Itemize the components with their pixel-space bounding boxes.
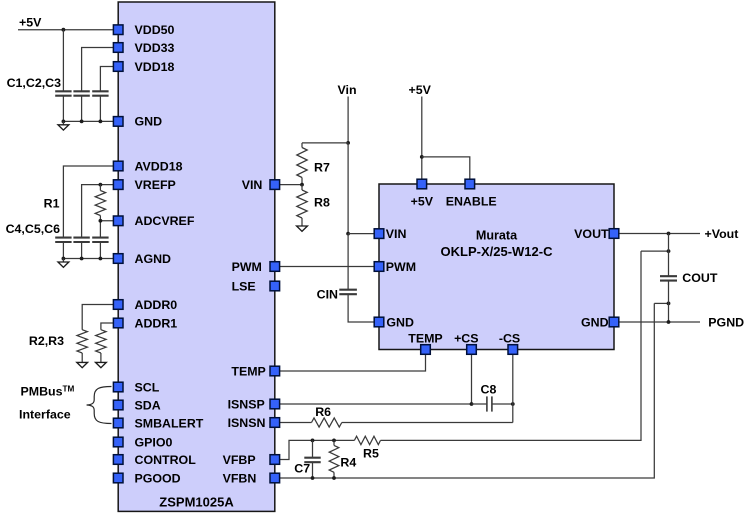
label pin VIN module [386, 227, 407, 241]
junction rail C3 [99, 120, 103, 124]
capacitor C8 [472, 396, 513, 411]
pin U1 ISNSN [270, 418, 280, 428]
pin U1 SMBALERT [113, 418, 123, 428]
label C1,C2,C3 [7, 76, 62, 90]
label C4,C5,C6 [6, 222, 61, 236]
label pin ISNSP [228, 397, 265, 411]
svg-text:+5V: +5V [409, 83, 432, 97]
label U2 OKLP-X/25-W12-C [441, 244, 554, 259]
wire VFBN to ground sense [275, 303, 655, 478]
wire ADDR1 to R3 [101, 323, 118, 330]
svg-text:VDD50: VDD50 [135, 23, 175, 37]
svg-text:SDA: SDA [135, 398, 161, 412]
svg-text:PWM: PWM [386, 260, 416, 274]
svg-text:-CS: -CS [499, 331, 520, 345]
pin U1 VFBP [270, 455, 280, 465]
junction sense COUT top [667, 249, 671, 253]
pin U1 VIN [270, 180, 280, 190]
label pin AVDD18 [135, 159, 183, 173]
svg-text:C4,C5,C6: C4,C5,C6 [6, 222, 61, 236]
label R7 [314, 161, 330, 175]
svg-text:PMBusTM: PMBusTM [21, 385, 75, 399]
wire ADDR0 to R2 [82, 305, 118, 330]
label pin VOUT [574, 227, 609, 241]
wire AGND rail [63, 258, 118, 260]
pin U1 VFBN [270, 473, 280, 483]
svg-text:+Vout: +Vout [705, 227, 739, 241]
label R1 [44, 197, 60, 211]
label CIN [317, 287, 338, 301]
label pin ENABLE [446, 194, 497, 208]
label pin SDA [135, 398, 161, 412]
wire ISNSN to R6 [275, 422, 312, 424]
net label +5V module [409, 83, 432, 97]
pin U2 GND right [609, 317, 619, 327]
net label +5V [19, 15, 42, 29]
IC U2 Murata OKLP-X/25-W12-C body [379, 184, 614, 350]
capacitor C6 [92, 238, 108, 242]
capacitor C7 [304, 440, 320, 478]
label pin SMBALERT [135, 416, 204, 430]
label pin -CS [499, 331, 520, 345]
svg-text:VOUT: VOUT [574, 227, 609, 241]
resistor R5 [354, 436, 380, 444]
wire C6 to AGND rail [99, 242, 101, 259]
resistor R2 [77, 330, 87, 363]
junction Vin R7 [346, 141, 350, 145]
ground symbol R3 [96, 362, 107, 367]
label pin GND left [386, 315, 414, 329]
svg-text:C8: C8 [481, 383, 497, 397]
svg-text:TEMP: TEMP [408, 331, 442, 345]
svg-text:R4: R4 [340, 455, 356, 469]
wire GND to PGND [614, 321, 700, 323]
wire R5 to +Vout sense [381, 251, 642, 440]
capacitor C3 [92, 91, 108, 95]
wire ISNSP to +CS [275, 403, 472, 405]
svg-text:CONTROL: CONTROL [135, 453, 197, 467]
svg-text:AGND: AGND [135, 252, 172, 266]
label U2 Murata [476, 228, 518, 242]
capacitor COUT [660, 276, 677, 280]
svg-text:ENABLE: ENABLE [446, 194, 497, 208]
wire +5V to VDD50 [18, 29, 118, 31]
wire C5 to AGND rail [81, 242, 83, 259]
ground symbol top-left [58, 121, 69, 130]
svg-text:ADDR1: ADDR1 [135, 316, 178, 330]
pin U1 GND [113, 117, 123, 127]
junction VOUT COUT [667, 232, 671, 236]
junction R7 R8 VIN [300, 183, 304, 187]
pin U1 PGOOD [113, 473, 123, 483]
pin U2 PWM [374, 262, 384, 272]
wire AVDD18 to C4 [63, 166, 118, 238]
junction rail C1 [62, 120, 66, 124]
svg-text:C7: C7 [294, 462, 310, 476]
junction sense COUT bottom [667, 302, 671, 306]
pin U2 VOUT [609, 229, 619, 239]
svg-text:PGOOD: PGOOD [135, 471, 181, 485]
junction VFBN R4 [332, 476, 336, 480]
svg-text:OKLP-X/25-W12-C: OKLP-X/25-W12-C [441, 244, 554, 259]
wire +5V to ENABLE [422, 157, 470, 184]
brace PMBus pins [87, 387, 112, 424]
wire C1 to ground rail [62, 96, 64, 122]
pin U1 SDA [113, 400, 123, 410]
wire ground rail to GND pin [63, 120, 118, 122]
wire VREFP to C5 [82, 185, 119, 238]
wire +5V down to C1 [62, 30, 64, 92]
label pin ADDR1 [135, 316, 178, 330]
label pin VREFP [135, 178, 176, 192]
capacitor C4 [55, 238, 71, 242]
net label Vin [338, 83, 357, 97]
label COUT [682, 271, 718, 285]
svg-text:VREFP: VREFP [135, 178, 176, 192]
IC U1 ZSPM1025A body [118, 2, 275, 511]
svg-text:VDD33: VDD33 [135, 41, 175, 55]
capacitor C1 [55, 91, 71, 95]
wire +5V down to module [421, 97, 423, 185]
wire VIN pin to divider [275, 184, 302, 186]
junction ADCVREF R1 [99, 219, 103, 223]
wire C2 to ground rail [81, 96, 83, 122]
wire VOUT to +Vout [614, 233, 700, 235]
svg-text:VFBP: VFBP [223, 453, 256, 467]
wire +CS pin down [471, 350, 473, 405]
label pin +CS [454, 331, 478, 345]
wire to Murata VIN pin [348, 233, 379, 235]
label pin LSE [232, 279, 256, 293]
pin U1 GPIO0 [113, 437, 123, 447]
wire PWM to Murata PWM [275, 266, 379, 268]
ground symbol AGND [58, 259, 69, 268]
svg-text:GND: GND [135, 115, 163, 129]
label pin PWM module [386, 260, 416, 274]
wire -CS pin down [512, 350, 514, 423]
wire VDD33 to C2 [82, 48, 119, 92]
wire VFBP to divider [275, 440, 355, 459]
wire CIN to Murata GND [348, 294, 379, 322]
svg-text:ADCVREF: ADCVREF [135, 214, 195, 228]
junction +5V enable branch [420, 155, 424, 159]
label pin +5V [411, 194, 434, 208]
svg-text:GND: GND [386, 315, 414, 329]
label R8 [314, 196, 330, 210]
pin U1 CONTROL [113, 455, 123, 465]
wire R7 top [302, 142, 348, 144]
svg-text:Interface: Interface [19, 408, 71, 422]
label pin ISNSN [228, 416, 266, 430]
svg-text:COUT: COUT [682, 271, 718, 285]
svg-text:LSE: LSE [232, 279, 256, 293]
junction VFBN C7 [311, 476, 315, 480]
pin U2 +CS [467, 345, 477, 355]
junction rail C2 [80, 120, 84, 124]
svg-text:ISNSP: ISNSP [228, 397, 265, 411]
label pin GND [135, 115, 163, 129]
svg-text:R7: R7 [314, 161, 330, 175]
label R2,R3 [29, 334, 64, 348]
ground symbol R2 [77, 362, 88, 367]
label pin VFBP [223, 453, 256, 467]
resistor R7 [297, 143, 307, 185]
wire ground sense to COUT bottom [654, 302, 668, 304]
svg-text:+CS: +CS [454, 331, 478, 345]
wire Vin down to CIN [347, 234, 349, 290]
pin U1 ADDR1 [113, 318, 123, 328]
pin U1 ADCVREF [113, 216, 123, 226]
resistor R8 [297, 185, 307, 226]
wire COUT bottom lead [668, 281, 670, 322]
label pin VFBN [223, 471, 257, 485]
capacitor C2 [73, 91, 89, 95]
label pin TEMP module [408, 331, 442, 345]
label pin VDD50 [135, 23, 175, 37]
svg-text:R1: R1 [44, 197, 60, 211]
junction AGND C5 [80, 257, 84, 261]
pin U1 ISNSP [270, 399, 280, 409]
svg-text:AVDD18: AVDD18 [135, 159, 183, 173]
pin U1 AGND [113, 254, 123, 264]
label pin GPIO0 [135, 435, 173, 449]
svg-text:+5V: +5V [19, 15, 42, 29]
label U1 ZSPM1025A [159, 495, 234, 510]
wire TEMP to Murata TEMP [275, 350, 426, 372]
pin U1 TEMP [270, 366, 280, 376]
label pin VDD33 [135, 41, 175, 55]
label pin TEMP [231, 364, 265, 378]
junction VREFP R1 [99, 183, 103, 187]
wire VDD18 to C3 [100, 67, 118, 92]
pin U1 VDD50 [113, 25, 123, 35]
svg-text:CIN: CIN [317, 287, 338, 301]
svg-text:ISNSN: ISNSN [228, 416, 266, 430]
capacitor CIN [339, 290, 357, 295]
svg-text:ADDR0: ADDR0 [135, 298, 178, 312]
wire Vin down [347, 97, 349, 143]
junction VFBP C7 [311, 439, 315, 443]
capacitor C5 [73, 238, 89, 242]
svg-text:VIN: VIN [386, 227, 407, 241]
pin U1 AVDD18 [113, 161, 123, 171]
svg-text:R2,R3: R2,R3 [29, 334, 64, 348]
label pin ADDR0 [135, 298, 178, 312]
svg-text:PGND: PGND [708, 316, 744, 330]
pin U2 TEMP [421, 345, 431, 355]
svg-text:R6: R6 [315, 405, 331, 419]
junction PGND COUT [667, 320, 671, 324]
junction +5V rail [62, 28, 66, 32]
resistor R6 [312, 418, 342, 427]
wire ADCVREF to R1 and C6 [100, 221, 118, 238]
junction VFBP R4 [332, 439, 336, 443]
ground symbol R8 [297, 226, 308, 231]
junction AGND C6 [99, 257, 103, 261]
pin U1 LSE [270, 281, 280, 291]
svg-text:SMBALERT: SMBALERT [135, 416, 204, 430]
pin U1 VDD33 [113, 43, 123, 53]
svg-text:+5V: +5V [411, 194, 434, 208]
label pin VDD18 [135, 60, 175, 74]
junction Vin Murata VIN [346, 232, 350, 236]
wire C4 to AGND rail [62, 242, 64, 259]
resistor R1 [95, 185, 105, 221]
pin U1 VDD18 [113, 62, 123, 72]
label C7 [294, 462, 310, 476]
label pin CONTROL [135, 453, 197, 467]
pin U1 ADDR0 [113, 300, 123, 310]
pin U1 SCL [113, 382, 123, 392]
svg-text:VDD18: VDD18 [135, 60, 175, 74]
svg-text:TEMP: TEMP [231, 364, 265, 378]
net label PGND [708, 316, 744, 330]
wire COUT top lead [668, 234, 670, 277]
label R4 [340, 455, 356, 469]
label pin AGND [135, 252, 172, 266]
resistor R4 [329, 440, 339, 478]
label pin ADCVREF [135, 214, 195, 228]
svg-text:Vin: Vin [338, 83, 357, 97]
label PMBus Interface [19, 385, 75, 422]
junction AGND C4 [62, 257, 66, 261]
svg-text:C1,C2,C3: C1,C2,C3 [7, 76, 62, 90]
svg-text:PWM: PWM [232, 260, 262, 274]
label pin PWM [232, 260, 262, 274]
svg-text:GND: GND [581, 315, 609, 329]
pin U2 ENABLE [465, 179, 475, 189]
pin U1 PWM [270, 262, 280, 272]
label pin VIN [242, 178, 263, 192]
junction +CS C8 [470, 402, 474, 406]
label R6 [315, 405, 331, 419]
svg-text:SCL: SCL [135, 380, 160, 394]
svg-text:R8: R8 [314, 196, 330, 210]
pin U1 VREFP [113, 180, 123, 190]
label pin PGOOD [135, 471, 181, 485]
label C8 [481, 383, 497, 397]
label R5 [363, 446, 379, 460]
svg-text:VFBN: VFBN [223, 471, 257, 485]
svg-text:VIN: VIN [242, 178, 263, 192]
wire C3 to ground rail [99, 96, 101, 122]
pin U2 -CS [508, 345, 518, 355]
pin U2 +5V [417, 179, 427, 189]
label pin SCL [135, 380, 160, 394]
svg-text:ZSPM1025A: ZSPM1025A [159, 495, 234, 510]
pin U2 VIN [374, 229, 384, 239]
svg-text:R5: R5 [363, 446, 379, 460]
resistor R3 [96, 330, 106, 363]
wire sense to COUT top [641, 250, 669, 252]
label pin GND right [581, 315, 609, 329]
wire R6 to -CS [342, 422, 513, 424]
wire Vin to Murata VIN junctions [347, 143, 349, 234]
pin U2 GND left [374, 317, 384, 327]
net label +Vout [705, 227, 739, 241]
svg-text:Murata: Murata [476, 228, 518, 242]
svg-text:GPIO0: GPIO0 [135, 435, 173, 449]
junction -CS C8 [511, 402, 515, 406]
